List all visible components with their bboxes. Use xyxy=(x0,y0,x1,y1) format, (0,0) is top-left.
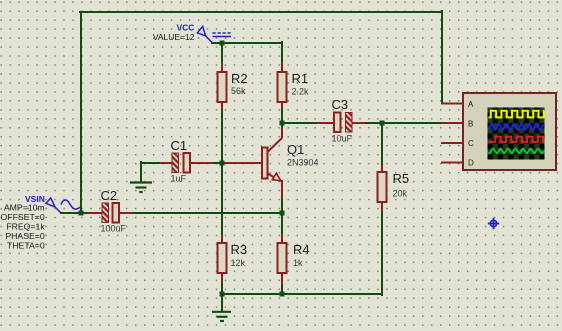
resistor R4 xyxy=(278,242,310,273)
svg-text:R5: R5 xyxy=(393,171,410,186)
trace channel C red xyxy=(489,137,545,142)
junction VCC rail at R2 xyxy=(220,41,225,46)
ground at bottom rail xyxy=(212,294,231,321)
wire: Q1 emitter down through node to R4 top xyxy=(281,181,283,243)
wire: input net top-left vertical from VSIN node up xyxy=(80,12,82,213)
svg-text:C: C xyxy=(468,139,474,148)
origin marker xyxy=(488,218,499,229)
wire: R1 bottom to collector node xyxy=(281,102,283,127)
junction output node at R5 xyxy=(380,121,385,126)
svg-text:56k: 56k xyxy=(231,86,246,96)
svg-text:20k: 20k xyxy=(393,189,408,199)
svg-text:1k: 1k xyxy=(293,258,303,268)
junction collector node at R1/C3 xyxy=(280,121,285,126)
wire: R4 bottom to ground rail xyxy=(281,273,283,293)
capacitor C2 xyxy=(101,188,127,234)
svg-text:OFFSET=0: OFFSET=0 xyxy=(1,212,45,222)
svg-text:THETA=0: THETA=0 xyxy=(7,241,45,251)
wire: collector node to C3 left lead xyxy=(282,122,334,124)
svg-text:R2: R2 xyxy=(231,71,248,86)
ground near C1 xyxy=(130,183,152,193)
oscilloscope U1 xyxy=(441,93,556,170)
wire: R2 bottom to base node to R3 top xyxy=(221,102,223,243)
svg-text:2N3904: 2N3904 xyxy=(287,158,319,168)
svg-text:VALUE=12: VALUE=12 xyxy=(153,32,195,42)
pin B xyxy=(442,122,462,124)
svg-text:100uF: 100uF xyxy=(101,224,127,234)
svg-text:FREQ=1k: FREQ=1k xyxy=(6,222,45,232)
wire: Q1 base lead xyxy=(223,162,262,164)
junction VSIN output node xyxy=(79,211,84,216)
svg-text:AMP=10m: AMP=10m xyxy=(4,203,45,213)
pin D xyxy=(441,162,462,164)
wire: input net top horizontal to scope xyxy=(80,11,442,13)
pin C xyxy=(441,142,462,144)
svg-text:12k: 12k xyxy=(231,258,246,268)
wire: C2 right lead to emitter node xyxy=(119,212,281,214)
resistor R3 xyxy=(218,242,248,273)
wire: VSIN node to C2 left lead xyxy=(61,212,102,214)
svg-text:R1: R1 xyxy=(292,71,309,86)
svg-text:B: B xyxy=(468,119,473,128)
power symbol VCC xyxy=(153,23,231,43)
svg-text:1uF: 1uF xyxy=(171,174,187,184)
wire: VCC rail horizontal xyxy=(212,42,282,44)
transistor Q1 xyxy=(262,127,319,182)
resistor R1 xyxy=(278,71,310,102)
junction emitter node at C2 xyxy=(280,211,285,216)
resistor R5 xyxy=(378,171,410,202)
wire: VCC rail to R2 top xyxy=(221,43,223,72)
junction base node xyxy=(220,161,225,166)
svg-text:D: D xyxy=(468,159,474,168)
svg-text:C1: C1 xyxy=(171,138,188,153)
source VSIN xyxy=(1,194,81,251)
svg-text:R4: R4 xyxy=(293,242,310,257)
svg-text:C2: C2 xyxy=(101,188,118,203)
svg-text:A: A xyxy=(468,100,474,109)
trace channel B blue xyxy=(489,124,544,130)
trace channel A yellow xyxy=(489,111,545,118)
capacitor C1 xyxy=(171,138,191,184)
wire: C1 left lead to ground xyxy=(141,162,172,182)
svg-text:PHASE=0: PHASE=0 xyxy=(5,231,45,241)
wire: input net right vertical down to scope channel A xyxy=(441,11,443,104)
wire: R5 top to output node xyxy=(381,122,383,172)
wire: R3 bottom to ground rail xyxy=(221,273,223,293)
junction ground rail at R4 xyxy=(280,292,285,297)
junction ground rail at R3 xyxy=(220,292,225,297)
pin A xyxy=(442,103,462,105)
wire: VCC rail to R1 top xyxy=(281,42,283,72)
svg-text:10uF: 10uF xyxy=(332,134,353,144)
svg-text:Q1: Q1 xyxy=(287,142,304,157)
svg-text:C3: C3 xyxy=(332,97,349,112)
wire: C1 right lead to base node xyxy=(190,162,221,164)
wire: C3 right lead to scope channel B xyxy=(352,122,442,124)
resistor R2 xyxy=(218,71,248,102)
svg-text:R3: R3 xyxy=(231,242,248,257)
trace channel D green xyxy=(489,149,544,153)
wire: bottom rail from ground junction to R5 bottom xyxy=(221,202,382,295)
capacitor C3 xyxy=(332,97,353,144)
scope screen xyxy=(488,108,545,160)
svg-text:2.2k: 2.2k xyxy=(292,87,310,97)
